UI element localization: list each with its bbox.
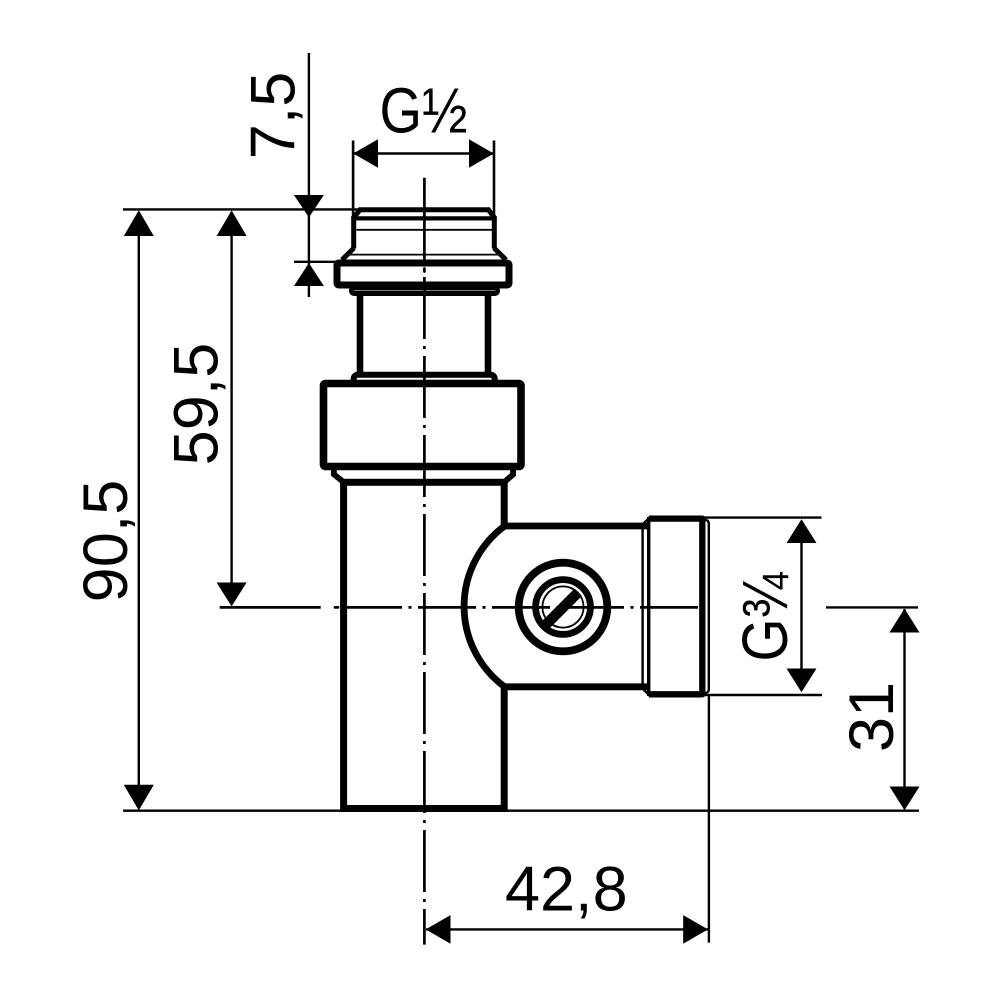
7,5 lower tick line <box>294 261 337 263</box>
G3/4 top reference line <box>701 516 822 518</box>
dim 59,5 line <box>230 212 232 604</box>
svg-text:G¾: G¾ <box>729 571 801 661</box>
dim 42,8 line <box>426 928 708 930</box>
horizontal centerline dot <box>335 606 338 609</box>
top reference line <box>123 208 360 210</box>
ring below collar <box>352 288 498 294</box>
collar top face thin line <box>349 254 500 256</box>
flare below nut <box>334 460 513 482</box>
31 top tick line <box>826 606 918 608</box>
dim G1/2 right arrow <box>469 139 494 168</box>
step ring above nut <box>354 375 495 389</box>
dim 59,5 bottom arrow <box>217 583 247 607</box>
vertical centerline dot <box>423 269 426 272</box>
screw thin circle <box>542 586 583 627</box>
dim G1/2 left arrow <box>353 139 378 168</box>
svg-text:7,5: 7,5 <box>239 72 309 160</box>
svg-text:31: 31 <box>837 682 907 752</box>
boss rounded end arc <box>464 526 505 687</box>
tube right edge <box>485 291 492 378</box>
screw slot <box>546 592 578 624</box>
dim 7,5 upper arrow <box>294 195 324 217</box>
G1/2 male thread top outline <box>354 210 495 249</box>
G3/4 connector outline <box>649 519 703 695</box>
G3/4 bottom tick line <box>703 694 822 696</box>
dim 90,5 top arrow <box>124 210 154 236</box>
dim G3/4 line <box>800 521 802 690</box>
dim 7,5 lower arrow <box>294 263 324 286</box>
boss end bottom chamfer <box>643 689 648 694</box>
dim 90,5 line <box>138 212 140 809</box>
tube left edge <box>357 291 364 378</box>
valve boss white body <box>464 526 650 687</box>
svg-text:42,8: 42,8 <box>505 855 628 925</box>
vertical pipe <box>344 482 505 808</box>
dim 90,5 bottom arrow <box>124 785 154 811</box>
boss end thin line <box>641 525 643 688</box>
horizontal centerline dashed <box>344 606 703 609</box>
dim G3/4 top arrow <box>787 519 817 543</box>
thread root thin line <box>357 229 492 231</box>
collar flange <box>337 263 509 285</box>
svg-text:G½: G½ <box>380 74 468 146</box>
union nut <box>324 384 522 467</box>
vertical centerline solid start <box>423 178 426 265</box>
dim G1/2 right extension line <box>493 141 496 219</box>
G3/4 thread end cap <box>703 519 709 694</box>
boss bottom line <box>505 683 650 690</box>
vertical centerline dashed <box>423 277 426 945</box>
dim 31 bottom arrow <box>890 787 920 811</box>
bottom reference line <box>123 810 919 812</box>
boss end top chamfer <box>643 519 648 524</box>
screw outer circle <box>519 563 608 652</box>
dim 59,5 top arrow <box>217 210 247 236</box>
thread shoulder line <box>351 216 496 220</box>
thread flare right slant <box>494 248 506 260</box>
G3/4 connector white body <box>648 515 706 697</box>
boss top line <box>505 523 650 530</box>
dim 31 top arrow <box>890 609 920 633</box>
dim 42,8 right extension line <box>708 694 710 943</box>
screw middle circle <box>536 580 591 635</box>
dim G3/4 bottom arrow <box>787 669 817 693</box>
dim G1/2 line <box>354 152 493 154</box>
dim G1/2 left extension line <box>352 141 355 219</box>
dim 31 line <box>903 609 905 809</box>
horizontal centerline solid start <box>220 606 321 609</box>
dim 42,8 right arrow <box>683 915 708 944</box>
dim 7,5 line <box>308 53 310 297</box>
G3/4 connector left edge <box>647 517 650 696</box>
dim 42,8 left arrow <box>426 915 451 944</box>
svg-text:59,5: 59,5 <box>162 343 232 466</box>
thread flare left slant <box>342 248 354 260</box>
svg-text:90,5: 90,5 <box>71 480 141 603</box>
